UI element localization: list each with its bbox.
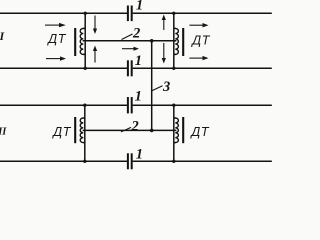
svg-text:3: 3: [162, 79, 170, 95]
arrow: current up, bottom of top-left transformer: [93, 46, 97, 63]
wire II bottom conductor (D) with gap for capacitor 1: [0, 160, 127, 162]
transformer ДТ top-right: winding (4 arcs, center tap): [175, 28, 178, 54]
transformer ДТ bottom-right: winding (4 arcs, center tap): [175, 118, 178, 143]
transformer ДТ top-left: winding (4 arcs, center tap): [80, 28, 83, 54]
capacitor 1 (series in wire A): [128, 6, 132, 22]
svg-text:1: 1: [135, 53, 142, 69]
transformer ДТ top-left: tap leads: [83, 28, 85, 54]
svg-text:ДТ: ДТ: [190, 34, 210, 48]
transformer ДТ bottom-left: shunt wire across line II: [84, 105, 86, 161]
transformer ДТ bottom-left: tap leads: [83, 118, 85, 143]
transformer ДТ bottom-left: winding (4 arcs, center tap): [80, 118, 83, 143]
leader line to label 2 (bottom): [121, 127, 131, 131]
junction node: top-left on A: [84, 12, 87, 15]
wire: line II center-tap link (node 2): [83, 129, 177, 131]
junction node: bottom-left on C: [83, 104, 86, 107]
svg-text:1: 1: [136, 0, 143, 14]
transformer ДТ top-right: shunt wire across line I: [173, 13, 175, 68]
arrow: output flow on A (right): [189, 23, 208, 27]
svg-text:1: 1: [135, 89, 142, 105]
junction node: bottom-left on D: [83, 160, 86, 163]
transformer ДТ bottom-right: tap leads: [174, 118, 176, 143]
wire I top conductor (A) with gap for capacitor 1: [0, 12, 127, 14]
wire I bottom conductor (B) with gap for capacitor 1: [0, 67, 127, 69]
junction node: center tap link I: [150, 39, 154, 43]
junction node: bottom-right on D: [172, 160, 175, 163]
transformer ДТ top-left: core bar: [74, 28, 76, 56]
arrow: current down, bottom of top-right transformer: [162, 43, 166, 64]
arrow: current down, top-left transformer: [93, 16, 97, 35]
junction node: center tap link II: [150, 129, 154, 133]
junction node: top-left on B: [84, 67, 87, 70]
arrow: flow on center link (node 2): [122, 47, 139, 51]
svg-text:2: 2: [131, 118, 139, 134]
junction node: top-right on A: [172, 12, 175, 15]
arrow: input flow on B (left): [46, 56, 66, 60]
capacitor 1 (series in wire B): [128, 60, 132, 76]
svg-text:ДТ: ДТ: [51, 125, 71, 139]
svg-text:I: I: [0, 29, 6, 43]
arrow: output flow on B (right): [189, 56, 208, 60]
transformer ДТ bottom-right: core bar: [182, 117, 184, 143]
transformer ДТ top-right: tap leads: [174, 28, 176, 54]
transformer ДТ bottom-right: shunt wire across line II: [173, 105, 175, 161]
capacitor 1 (series in wire C): [128, 97, 132, 113]
arrow: current up, top-right transformer: [162, 15, 166, 31]
arrow: input flow on A (left): [45, 23, 66, 27]
svg-text:ДТ: ДТ: [46, 32, 66, 46]
junction node: top-right on B: [172, 67, 175, 70]
wire: central coupling link (node 3): [151, 41, 153, 131]
flow arrows: [45, 15, 209, 64]
svg-text:II: II: [0, 127, 7, 138]
leader line to label 3: [152, 86, 162, 91]
svg-text:2: 2: [132, 25, 140, 41]
svg-text:ДТ: ДТ: [189, 125, 209, 139]
wire: line I center-tap link (node 2): [83, 40, 177, 42]
transformer ДТ top-right: core bar: [182, 28, 184, 56]
capacitor 1 (series in wire D): [128, 153, 132, 169]
transformer ДТ top-left: shunt wire across line I: [84, 13, 86, 68]
wire II top conductor (C) with gap for capacitor 1: [0, 104, 127, 106]
svg-text:1: 1: [136, 147, 143, 163]
junction node: bottom-right on C: [172, 104, 175, 107]
transformer ДТ bottom-left: core bar: [74, 117, 76, 143]
leader line to label 2 (top): [122, 34, 133, 40]
